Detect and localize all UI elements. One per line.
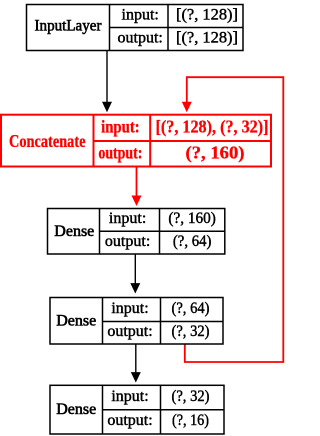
svg-text:Concatenate: Concatenate xyxy=(9,131,86,151)
node Concatenate xyxy=(1,115,271,167)
svg-text:(?, 32): (?, 32) xyxy=(172,323,210,340)
svg-text:(?, 16): (?, 16) xyxy=(172,412,209,429)
node Dense2 xyxy=(50,298,223,345)
node InputLayer xyxy=(27,5,244,51)
svg-text:input:: input: xyxy=(122,6,159,23)
svg-text:Dense: Dense xyxy=(54,223,94,240)
svg-text:input:: input: xyxy=(101,116,140,136)
svg-text:(?, 64): (?, 64) xyxy=(172,300,210,317)
svg-text:[(?, 128)]: [(?, 128)] xyxy=(176,29,238,46)
svg-text:input:: input: xyxy=(111,388,148,405)
svg-text:[(?, 128), (?, 32)]: [(?, 128), (?, 32)] xyxy=(156,116,269,136)
edge Concatenate to Dense1 xyxy=(132,167,140,205)
svg-text:(?, 160): (?, 160) xyxy=(168,210,216,227)
svg-text:output:: output: xyxy=(105,233,150,250)
svg-text:Dense: Dense xyxy=(56,401,96,418)
svg-text:[(?, 128)]: [(?, 128)] xyxy=(176,6,238,23)
edge Dense1 to Dense2 xyxy=(131,254,139,292)
node Dense3 xyxy=(50,385,224,434)
edge Dense2 to Dense3 xyxy=(132,344,140,381)
svg-text:output:: output: xyxy=(118,29,163,46)
edge Dense2 output feedback to Concatenate xyxy=(183,77,284,362)
node Dense1 xyxy=(48,209,225,255)
svg-text:output:: output: xyxy=(107,412,152,429)
edge InputLayer to Concatenate xyxy=(103,51,111,112)
svg-text:output:: output: xyxy=(107,323,152,340)
svg-text:(?, 64): (?, 64) xyxy=(173,233,212,250)
svg-text:(?, 160): (?, 160) xyxy=(186,142,245,162)
svg-text:InputLayer: InputLayer xyxy=(35,18,103,35)
svg-text:(?, 32): (?, 32) xyxy=(172,388,210,405)
svg-text:output:: output: xyxy=(98,142,142,162)
svg-text:input:: input: xyxy=(109,210,146,227)
svg-text:input:: input: xyxy=(111,300,148,317)
svg-text:Dense: Dense xyxy=(56,312,96,329)
